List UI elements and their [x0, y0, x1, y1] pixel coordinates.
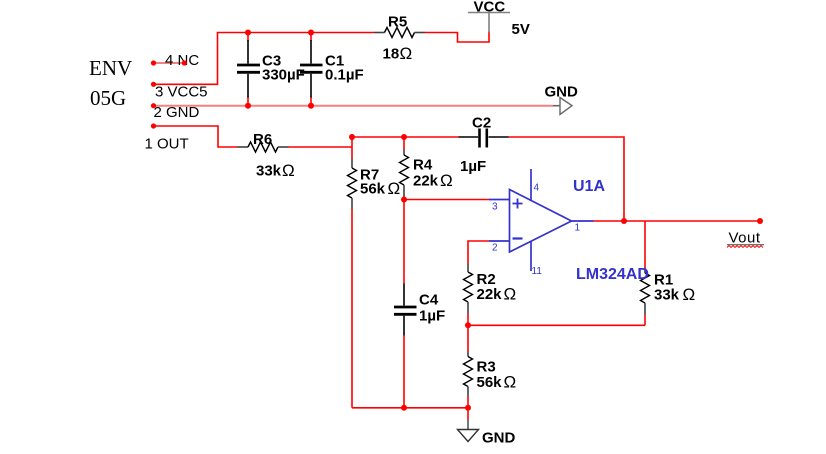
wire net GND rail (pin2)	[154, 105, 554, 107]
wire pin4 NC stub	[154, 62, 185, 64]
op-amp pin 2 lead	[489, 240, 510, 242]
wire C1 top red stub	[310, 33, 312, 42]
svg-text:1µF: 1µF	[460, 158, 486, 175]
svg-text:VCC: VCC	[474, 0, 506, 16]
svg-text:1µF: 1µF	[419, 308, 445, 325]
wire output net red segment	[594, 220, 761, 222]
op-amp pin 1 output lead	[572, 220, 594, 222]
junction C1 bottom	[308, 103, 314, 109]
svg-text:R3: R3	[477, 359, 496, 376]
svg-text:Ω: Ω	[504, 373, 517, 392]
svg-text:U1A: U1A	[573, 178, 605, 195]
junction C4 bottom	[401, 405, 407, 411]
svg-text:22k: 22k	[477, 286, 503, 303]
wire net VCC5: pin3 to rail	[154, 33, 375, 85]
node pin4 stub end dot	[182, 60, 187, 65]
capacitor C2	[459, 115, 509, 176]
svg-text:3 VCC5: 3 VCC5	[155, 84, 208, 101]
wire left vertical x352 top (node A to R7)	[351, 137, 353, 159]
resistor R5	[374, 14, 425, 64]
node pin3 dot	[151, 82, 156, 87]
resistor R3	[464, 352, 517, 397]
wire node C to R1 bottom	[468, 324, 645, 326]
op-amp pin 4 lead	[530, 169, 532, 201]
node pin4 dot	[151, 60, 156, 65]
wire R2 bottom to node C	[467, 314, 469, 326]
wire node B to op-amp pin3	[404, 199, 489, 201]
node pin1 dot	[151, 123, 156, 128]
svg-text:Ω: Ω	[440, 171, 453, 190]
resistor R1	[641, 268, 696, 315]
wire R1 top connection from output	[644, 221, 646, 268]
component name ENV 05G	[89, 56, 132, 110]
svg-text:2 GND: 2 GND	[154, 104, 200, 121]
wire bottom rail to GND stub	[467, 408, 469, 420]
svg-text:1 OUT: 1 OUT	[145, 136, 189, 153]
svg-text:R6: R6	[253, 131, 272, 148]
capacitor C1	[300, 40, 364, 98]
resistor R2	[464, 264, 517, 314]
wire net VCC5: R5 right to VCC symbol	[425, 32, 489, 43]
svg-text:GND: GND	[545, 84, 579, 101]
svg-text:LM324AD: LM324AD	[576, 266, 649, 283]
node pin2 dot	[151, 103, 156, 108]
VCC power symbol	[468, 0, 530, 38]
op-amp U1A	[510, 190, 572, 253]
svg-text:22k: 22k	[413, 173, 439, 190]
svg-text:33k: 33k	[654, 287, 680, 304]
svg-text:56k: 56k	[360, 181, 386, 198]
svg-text:330µF: 330µF	[262, 67, 305, 84]
svg-text:18: 18	[383, 46, 400, 63]
node Vout label	[727, 230, 764, 248]
svg-text:R4: R4	[413, 157, 433, 174]
capacitor C3	[237, 40, 305, 98]
svg-text:ENV: ENV	[89, 56, 132, 80]
wire left vertical x352 bottom (R7 to bottom rail)	[351, 210, 353, 408]
junction C3 bottom	[245, 103, 251, 109]
svg-text:Ω: Ω	[400, 44, 413, 63]
op-amp pin 11 lead	[530, 241, 532, 271]
wire R6 right to node A	[289, 146, 353, 148]
svg-text:1: 1	[575, 223, 581, 234]
junction output	[621, 218, 627, 224]
resistor R7	[348, 159, 401, 210]
svg-text:4: 4	[534, 183, 540, 194]
svg-text:Ω: Ω	[388, 179, 401, 198]
wire R4 bottom to node B	[403, 197, 405, 200]
wire R1 bottom short	[644, 315, 646, 326]
wire C4 bottom to bottom rail	[403, 336, 405, 408]
junction R3 bottom	[465, 405, 471, 411]
junction node A	[349, 134, 355, 140]
ground arrow symbol (top)	[545, 84, 579, 115]
wire bottom rail	[352, 407, 468, 409]
svg-text:3: 3	[492, 202, 498, 213]
svg-text:GND: GND	[482, 430, 516, 447]
svg-text:56k: 56k	[477, 374, 503, 391]
wire node B down to C4	[403, 200, 405, 284]
junction node C	[465, 322, 471, 328]
svg-text:2: 2	[492, 243, 498, 254]
wire R4 top connection	[403, 137, 405, 150]
resistor R4	[400, 150, 453, 198]
svg-text:4 NC: 4 NC	[165, 52, 199, 69]
wire C1 bottom red stub	[310, 97, 312, 106]
wire node C to R3	[467, 325, 469, 351]
svg-text:C4: C4	[419, 292, 439, 309]
wire C3 top red stub	[247, 33, 249, 42]
svg-text:Vout: Vout	[729, 230, 761, 247]
node Vout endpoint dot	[757, 218, 763, 224]
wire op-amp pin2 to R2	[468, 241, 489, 264]
svg-text:11: 11	[532, 266, 543, 277]
svg-text:05G: 05G	[90, 86, 126, 110]
junction R4 top	[401, 134, 407, 140]
junction C3 top	[245, 30, 251, 36]
op-amp pin 3 lead	[489, 199, 510, 201]
svg-text:C2: C2	[472, 115, 491, 132]
ground symbol (bottom)	[458, 420, 516, 447]
junction node B	[401, 197, 407, 203]
junction C1 top	[308, 30, 314, 36]
svg-text:Ω: Ω	[683, 285, 696, 304]
wire mid rail left segment (node A to C2)	[352, 136, 459, 138]
svg-text:5V: 5V	[512, 21, 530, 38]
resistor R6	[238, 131, 295, 180]
svg-text:Ω: Ω	[282, 161, 295, 180]
svg-text:33k: 33k	[256, 163, 282, 180]
wire R3 bottom to bottom rail	[467, 396, 469, 408]
wire net OUT: pin1 to R6	[154, 126, 238, 147]
svg-text:0.1µF: 0.1µF	[325, 67, 364, 84]
capacitor C4	[394, 284, 445, 336]
svg-text:R5: R5	[388, 14, 407, 31]
wire C3 bottom red stub	[247, 97, 249, 106]
wire mid rail right segment (C2 to output corner)	[509, 137, 625, 221]
svg-text:Ω: Ω	[504, 285, 517, 304]
